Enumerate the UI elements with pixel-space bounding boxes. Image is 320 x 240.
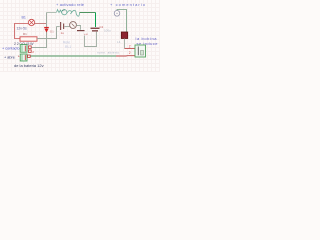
svg-text:Relé: Relé bbox=[63, 41, 70, 45]
junction dot bbox=[46, 47, 47, 48]
svg-text:+: + bbox=[18, 55, 20, 59]
wire meter right down bbox=[76, 26, 80, 30]
relay contact box bbox=[135, 45, 146, 57]
svg-text:100u: 100u bbox=[104, 29, 111, 33]
indicator circle top right bbox=[114, 11, 120, 17]
svg-text:+ abre: + abre bbox=[4, 56, 15, 60]
relay coil RL1 bbox=[121, 32, 127, 39]
svg-text:2: 2 bbox=[129, 51, 131, 55]
wire coil to cap branch bbox=[80, 12, 96, 14]
svg-text:+ activado relé: + activado relé bbox=[56, 2, 85, 7]
svg-text:L1: L1 bbox=[117, 41, 121, 44]
svg-text:norm. abierto: norm. abierto bbox=[97, 51, 119, 55]
svg-text:+ contacto: + contacto bbox=[2, 47, 20, 51]
svg-text:B1: B1 bbox=[22, 16, 26, 20]
battery 1 pin A bbox=[28, 46, 31, 49]
wire circle to relay coil bbox=[117, 10, 127, 33]
long bottom wire red section bbox=[116, 55, 135, 57]
inductor coil loop bbox=[62, 10, 67, 15]
diode D1 bbox=[44, 27, 49, 33]
wire relay coil to contact box pin 1 bbox=[124, 39, 126, 49]
svg-text:1u: 1u bbox=[61, 31, 65, 35]
series capacitor plates bbox=[57, 22, 70, 30]
wire lamp left + down to resistor bbox=[15, 24, 29, 39]
wire node to coil bbox=[47, 12, 57, 14]
svg-text:+u: +u bbox=[84, 32, 88, 36]
svg-text:de la bateria 12v: de la bateria 12v bbox=[14, 63, 44, 68]
inductor coil scribble right bbox=[67, 10, 80, 16]
svg-text:RL1: RL1 bbox=[65, 45, 71, 49]
svg-text:12v-5s: 12v-5s bbox=[17, 26, 27, 30]
wire vertical bright green bbox=[95, 13, 97, 28]
battery 2 pin bbox=[28, 55, 31, 58]
resistor R1 bbox=[20, 37, 37, 41]
svg-text:2: 2 bbox=[129, 44, 131, 48]
battery 1 pin B bbox=[28, 50, 31, 53]
svg-text:+ comentario: + comentario bbox=[110, 2, 146, 7]
battery source 2 bbox=[20, 54, 27, 61]
long bottom wire bbox=[31, 55, 117, 57]
meter circle bbox=[70, 22, 77, 29]
wire lamp right to vertical node bbox=[35, 23, 47, 25]
inductor coil loop shade bbox=[62, 10, 65, 11]
inductor coil scribble bbox=[57, 10, 62, 13]
wire cap bottom bracket bbox=[85, 32, 97, 47]
wire battery1 to node bbox=[32, 47, 47, 49]
wire vertical main left node bbox=[46, 13, 48, 48]
svg-text:R1: R1 bbox=[23, 32, 27, 36]
capacitor C1 plates bbox=[91, 28, 100, 32]
ground bar bbox=[77, 30, 85, 31]
battery source 1 bbox=[20, 45, 27, 53]
wire resistor right bbox=[37, 27, 57, 39]
lamp B1 bbox=[28, 19, 34, 25]
svg-text:D1: D1 bbox=[50, 30, 54, 34]
